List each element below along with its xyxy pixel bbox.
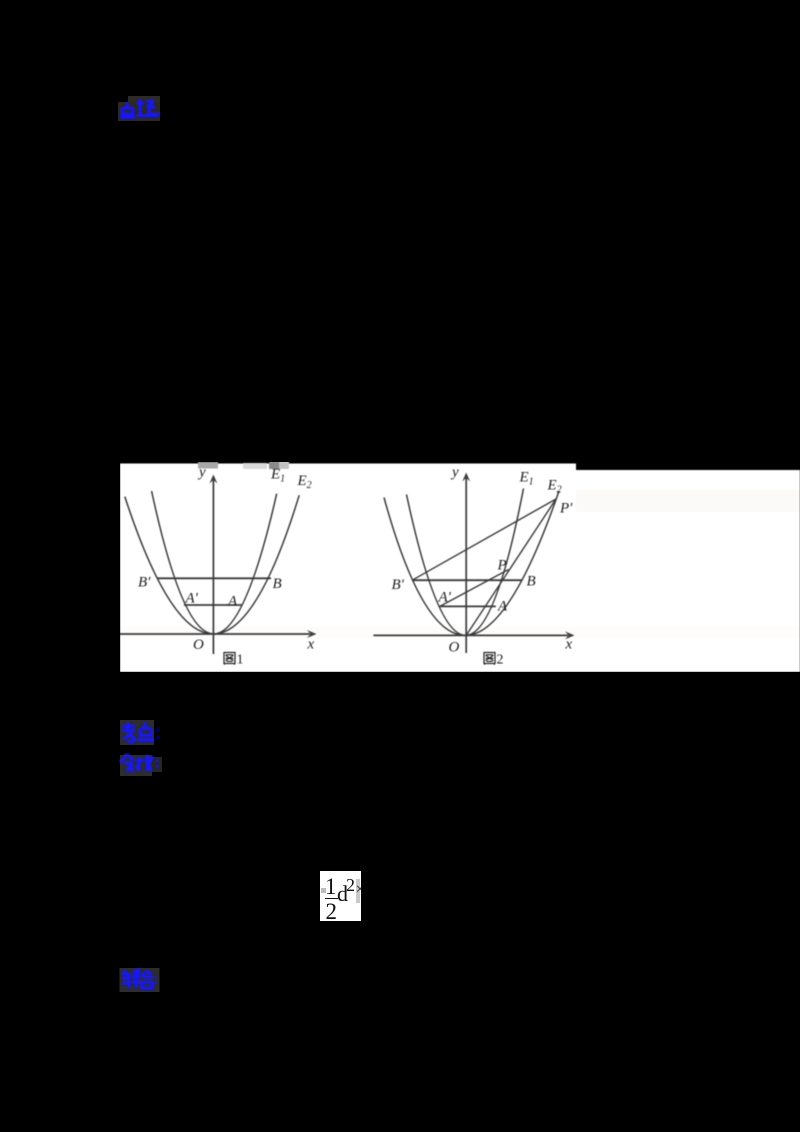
svg-text:B: B	[273, 576, 282, 592]
parabola E2 (fig1)	[125, 495, 299, 634]
svg-text:A: A	[497, 599, 508, 615]
y axis	[212, 480, 214, 654]
segment A'A (fig2)	[440, 605, 496, 607]
svg-text:y: y	[197, 465, 206, 481]
parabola E1 (fig1)	[152, 491, 277, 634]
faint bands	[576, 490, 800, 512]
svg-text:O: O	[449, 640, 460, 656]
caption 图2	[484, 653, 495, 665]
segment O P P'	[466, 499, 556, 635]
parabola E1 (fig2)	[407, 489, 524, 636]
segment A'P	[440, 570, 509, 607]
y axis	[465, 478, 467, 653]
svg-text:y: y	[450, 465, 459, 481]
segment B'B (fig2)	[412, 579, 522, 581]
segment A'A (fig1)	[184, 604, 242, 606]
svg-text:A′: A′	[438, 590, 452, 606]
x axis	[120, 633, 310, 635]
svg-text:A: A	[227, 594, 238, 610]
svg-text:B′: B′	[392, 577, 405, 593]
svg-text:B′: B′	[138, 575, 151, 591]
char 2	[137, 99, 158, 116]
svg-text:O: O	[193, 637, 204, 653]
svg-text:A′: A′	[185, 591, 199, 607]
comma	[156, 112, 159, 116]
x axis	[373, 634, 568, 636]
caption 图1	[224, 653, 235, 665]
segment B'P'	[412, 499, 556, 580]
svg-text:P′: P′	[559, 501, 573, 517]
char 1	[120, 102, 135, 118]
svg-text:1: 1	[237, 653, 244, 668]
svg-text:B: B	[527, 574, 536, 590]
gray handle blobs at top of fig1	[198, 462, 218, 469]
svg-text:x: x	[565, 637, 573, 653]
svg-text:2: 2	[497, 653, 504, 668]
svg-text:x: x	[307, 637, 315, 653]
segment B'B (fig1)	[157, 577, 271, 579]
parabola E2 (fig2)	[384, 491, 559, 635]
svg-text:P: P	[497, 558, 507, 574]
